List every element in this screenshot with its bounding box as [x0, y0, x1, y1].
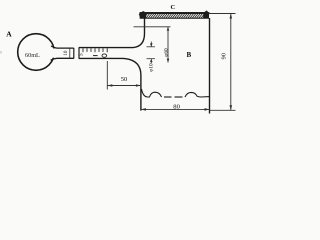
svg-text:B: B — [187, 51, 192, 59]
dimension 90 : bottom extension line — [210, 109, 236, 111]
svg-text:φ10: φ10 — [149, 63, 155, 72]
dimension phi10 : extension ticks — [147, 46, 156, 48]
graduation ticks on tube — [83, 48, 107, 52]
ground-joint line on neck — [69, 48, 71, 58]
graduation label 0 (rotated ellipse form) — [102, 54, 107, 57]
svg-text:5: 5 — [78, 53, 84, 56]
dimension 50 : extension line from 0 graduation — [106, 61, 108, 90]
tube top edge with flare up to vessel wall — [79, 18, 145, 48]
svg-text:50: 50 — [121, 76, 128, 83]
break (wavy) line at vessel bottom — [142, 89, 162, 97]
vessel B right wall — [209, 18, 211, 114]
svg-text:60mL: 60mL — [25, 52, 40, 59]
svg-text:80: 80 — [173, 104, 180, 111]
lid C hatched bar — [139, 10, 210, 18]
tube bottom edge with flare down to vessel wall — [79, 58, 141, 110]
dimension 80 : dimension line with arrows — [141, 108, 210, 110]
faint scan artifact at left edge — [0, 51, 2, 54]
dimension 90 : top extension line — [209, 13, 236, 15]
neck bottom edge — [51, 58, 74, 60]
svg-text:90: 90 — [221, 52, 228, 59]
svg-text:φ60: φ60 — [164, 48, 170, 57]
break line dashes — [164, 96, 172, 98]
dimension phi60 : dimension line — [167, 27, 169, 63]
neck end cap (ground joint end) — [73, 48, 75, 59]
svg-text:A: A — [6, 30, 12, 39]
dimension phi10 : arrows outside span — [150, 42, 152, 47]
svg-text:10: 10 — [63, 50, 69, 56]
neck of bulb A (erase circle arc at junction) — [51, 49, 75, 58]
break line second hump — [185, 92, 210, 97]
dimension 50 : dimension line with arrows — [107, 85, 141, 87]
dimension phi60 : top extension line — [134, 26, 171, 28]
dimension 90 : dimension line with arrows — [230, 14, 232, 111]
dark left tip of lid — [139, 11, 147, 18]
mid scale dash — [93, 55, 98, 57]
dark right tip of lid — [203, 10, 209, 18]
inlet tube of vessel B : left end cap — [78, 47, 80, 58]
svg-text:C: C — [171, 4, 176, 11]
neck top edge — [51, 46, 74, 48]
bulb A (60 mL flask body) — [18, 34, 55, 71]
